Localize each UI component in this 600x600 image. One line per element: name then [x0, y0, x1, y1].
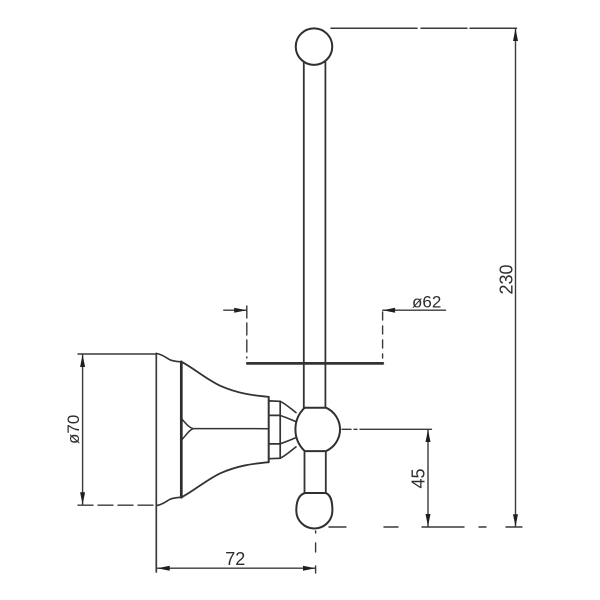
- svg-text:ø62: ø62: [412, 292, 441, 311]
- dim o70 arrow down: [80, 492, 85, 505]
- svg-text:230: 230: [497, 264, 517, 294]
- bell bottom profile: [182, 462, 269, 497]
- rod lower segment: [305, 451, 326, 493]
- dim o70 line: [82, 354, 84, 504]
- rod upper segment: [304, 61, 326, 408]
- dim 72 arrow right: [303, 566, 315, 571]
- spare-roll disc (o62): [247, 362, 382, 365]
- bottom ball: [296, 493, 332, 529]
- flange top edge: [156, 354, 181, 362]
- dim 72 extension right (centreline below ball): [315, 531, 317, 573]
- dim o62 extension right: [382, 312, 384, 358]
- dim 230 arrow up: [513, 28, 518, 41]
- dim 72 line: [157, 567, 315, 569]
- dim o62 line left: [224, 309, 247, 311]
- dim o62 arrow left: [234, 308, 246, 313]
- svg-text:72: 72: [225, 549, 245, 569]
- dim o62 line right: [383, 309, 446, 311]
- bell top profile: [182, 362, 269, 397]
- dim 230 arrow down: [513, 514, 518, 527]
- bottom reference dashed line: [329, 526, 522, 528]
- dim o70 arrow up: [80, 354, 85, 367]
- dim 45 arrow down: [426, 514, 431, 526]
- svg-text:45: 45: [409, 468, 429, 488]
- dim 72 arrow left: [157, 566, 169, 571]
- wall line: [155, 353, 157, 572]
- svg-text:ø70: ø70: [64, 415, 83, 444]
- dim 230 extension line top: [331, 27, 517, 29]
- dim 45 arrow up: [426, 430, 431, 442]
- dim o70 extension bottom: [78, 504, 156, 506]
- dim o62 extension left: [246, 306, 248, 358]
- flange/bell junction edge: [180, 362, 183, 498]
- dim 45 line: [427, 430, 429, 527]
- dim o62 arrow right: [383, 308, 395, 313]
- bell waist line with flare: [182, 419, 269, 429]
- top ball: [296, 28, 333, 65]
- dim 230 line: [515, 29, 517, 527]
- bell small-end edge: [268, 397, 270, 462]
- centreline from middle ball: [342, 428, 432, 430]
- neck curves bell-to-ball: [280, 401, 296, 458]
- flange bottom edge: [156, 497, 181, 505]
- collar between bell and ball: [269, 401, 281, 459]
- dim o70 extension top: [78, 353, 156, 355]
- middle ball: [295, 408, 340, 451]
